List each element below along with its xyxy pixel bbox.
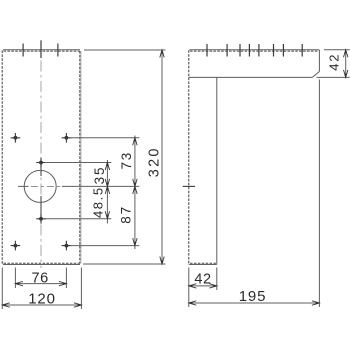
leg right edge (216, 77, 218, 264)
extension line y=186.4 (circle center) (62, 185, 139, 187)
ticks on flange top edge (207, 44, 302, 57)
centerline dark segment circle-to-hole bottom (40, 196, 42, 219)
big circle (24, 170, 56, 202)
76 extension lines (15, 268, 66, 289)
dim line 320 (161, 50, 163, 264)
flange top edge solid (189, 49, 319, 51)
arrows dim 73 (133, 138, 137, 146)
dim line 73/87 (134, 136, 136, 250)
flange right edge (318, 50, 320, 72)
tick mark left on top edge (22, 44, 24, 57)
arrows dim 42 bottom (189, 284, 197, 288)
arrows dim 35 (105, 163, 109, 171)
leg bottom edge solid (189, 264, 217, 266)
svg-text:76: 76 (32, 270, 49, 286)
extension line y=162.5 (center-top hole) (45, 162, 111, 164)
320 bottom extension (83, 263, 166, 265)
195 right extension line (318, 80, 320, 308)
hole top-right (62, 133, 72, 143)
centerline dark tick at top edge (40, 41, 42, 59)
arrows dim 120 (2, 303, 10, 307)
flange bottom edge (189, 76, 312, 78)
plate outline solid bottom edge (3, 264, 80, 266)
extension line y=138 (top hole row) (70, 137, 139, 139)
chamfer corner (312, 72, 319, 78)
42 bottom extension lines (189, 268, 217, 308)
plate outline right edge faint solid (80, 51, 82, 264)
svg-text:42: 42 (194, 271, 211, 287)
dim line 42 bottom (189, 285, 217, 287)
svg-text:320: 320 (147, 146, 163, 177)
circle horizontal centerline (31, 185, 62, 187)
left edge (dashed) (188, 50, 190, 264)
svg-text:35: 35 (92, 166, 107, 185)
svg-text:87: 87 (119, 205, 134, 224)
leg bottom edge dashed (inner) (190, 262, 216, 264)
svg-text:73: 73 (119, 151, 134, 170)
dim line 76 (15, 283, 66, 285)
arrows dim 87 (133, 186, 137, 194)
hole top-left (11, 133, 21, 143)
plate outline solid top edge (3, 49, 80, 51)
svg-text:42: 42 (327, 53, 342, 71)
dim line 120 (2, 304, 81, 306)
dim line 195 (189, 302, 320, 304)
arrows dim 76 (15, 281, 23, 285)
arrows dim 48.5 (105, 186, 109, 194)
hole bottom-right (62, 241, 72, 251)
tick on side-view left edge (circle center projection) (183, 185, 195, 187)
dim line 35/48.5 (106, 160, 108, 224)
hole center-top (36, 158, 46, 168)
42 right extension lines (317, 50, 350, 78)
120 extension lines (2, 268, 81, 310)
plate outline dashed bottom edge (inner) (4, 262, 80, 264)
arrows dim 42 right (344, 50, 348, 58)
svg-text:195: 195 (239, 288, 266, 305)
dim line 42 right (345, 50, 347, 78)
svg-text:120: 120 (28, 290, 55, 307)
plate outline left edge (dashed) (1, 51, 3, 265)
extension line y=218.8 (center-bottom hole) (45, 218, 111, 220)
plate outline dashed top edge (inner) (4, 50, 80, 52)
svg-text:48.5: 48.5 (91, 186, 106, 218)
tick mark right on top edge (57, 44, 59, 57)
arrows dim 320 (160, 50, 164, 58)
hole bottom-left (11, 241, 21, 251)
hole center-bottom (36, 214, 46, 224)
flange top edge dashed (inner) (190, 50, 319, 52)
circle horizontal centerline left stub (18, 185, 29, 187)
centerline dark segment hole-to-circle top (40, 163, 42, 177)
plate outline right edge (dashed) (79, 51, 81, 264)
320 top extension (84, 49, 166, 51)
extension line y=245.6 (bottom hole row) (70, 245, 139, 247)
arrows dim 195 (189, 301, 197, 305)
vertical centerline (40, 40, 42, 268)
